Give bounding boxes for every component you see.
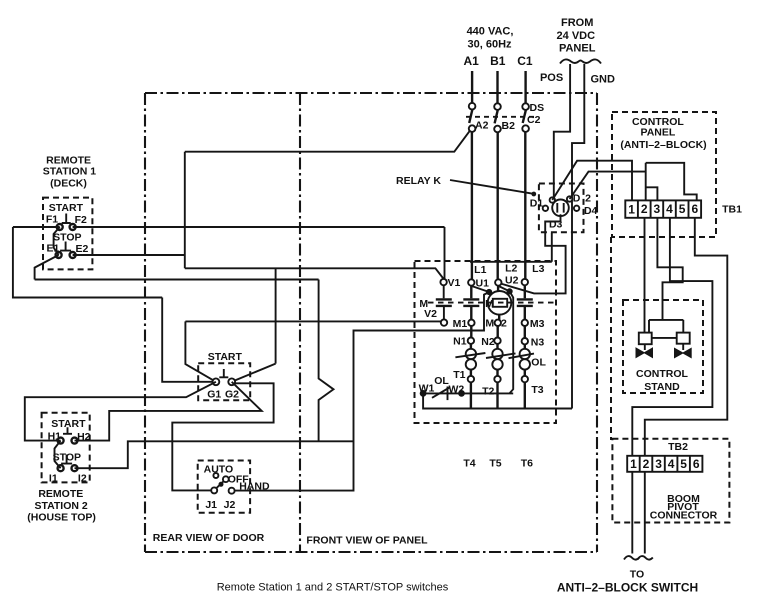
svg-text:G1: G1 (207, 388, 221, 400)
right valve stem (682, 344, 684, 350)
svg-text:FRONT VIEW OF PANEL: FRONT VIEW OF PANEL (306, 535, 428, 547)
svg-text:GND: GND (590, 74, 615, 86)
coil node dot left (487, 289, 492, 294)
svg-text:4: 4 (666, 202, 673, 216)
terminal M2 (495, 320, 501, 326)
boom pivot connector enclosure (dashed) (612, 439, 729, 523)
start button RS2 (NO) actuator (63, 427, 72, 434)
start button RS1 (NO) actuator (62, 214, 71, 224)
terminal N2 (494, 338, 500, 344)
svg-text:4: 4 (668, 457, 675, 471)
disconnect DS pole A lower contact A2 (469, 125, 476, 132)
node W1 (420, 391, 426, 397)
OL contact slash (432, 388, 450, 398)
relay terminal D2 (567, 196, 572, 201)
wire: coil right node riser to OL contact row (510, 292, 514, 394)
svg-text:STATION 2: STATION 2 (34, 500, 87, 512)
motor starter enclosure (dashed) (415, 261, 557, 423)
terminal V1 (440, 279, 446, 285)
OL slash phase A (455, 353, 485, 357)
wire: T2 down (496, 382, 498, 408)
wire: TB2-2 down to anti-2-block cable (644, 472, 646, 554)
wire: POS drop from 24VDC (554, 64, 570, 197)
svg-text:(HOUSE TOP): (HOUSE TOP) (27, 512, 96, 524)
label: 440 VAC, 3ph 60Hz (467, 26, 514, 51)
relay K enclosure (dashed) (539, 184, 584, 233)
OL slash phase C (509, 354, 535, 359)
svg-text:N1: N1 (453, 336, 467, 348)
svg-text:2: 2 (585, 193, 591, 205)
OL slash phase B (486, 353, 516, 358)
HOA selector arm (216, 481, 223, 488)
wire: M2-N2 (497, 326, 499, 338)
disconnect DS pole C lower contact C2 (522, 125, 529, 132)
wire: H1-I1 internal jumper (55, 441, 61, 469)
contact F2 (70, 224, 76, 230)
remote station 2 enclosure (dashed) (42, 413, 90, 483)
HOA selector enclosure (dashed) (198, 461, 250, 513)
svg-text:L2: L2 (505, 262, 517, 274)
svg-text:D1: D1 (530, 198, 544, 210)
svg-text:C2: C2 (527, 114, 541, 126)
svg-text:E2: E2 (75, 243, 88, 255)
terminal T1 (468, 376, 474, 382)
wire: relay D2 to TB1-2 (570, 172, 646, 199)
svg-text:START: START (49, 202, 84, 214)
svg-text:M: M (485, 318, 494, 330)
svg-text:TB2: TB2 (668, 441, 688, 453)
svg-text:TO: TO (630, 569, 644, 581)
svg-text:3: 3 (655, 457, 662, 471)
svg-text:CONTROL: CONTROL (636, 368, 688, 380)
wire: V1 stem to M aux contact (443, 285, 445, 298)
boundary: rear-view-of-door / front-view-of-panel divider (299, 93, 301, 552)
node W2 (459, 391, 465, 397)
contact F1 (57, 224, 63, 230)
start button G (NO) actuator (219, 369, 228, 377)
svg-text:440 VAC,: 440 VAC, (467, 26, 514, 38)
relay terminal left (D1 side) (543, 206, 548, 211)
label: REMOTE STATION 2 (HOUSE TOP) (27, 488, 96, 524)
contact E1 (56, 252, 62, 258)
relay terminal D4 (574, 206, 579, 211)
wire: F1-E1 internal jumper (54, 227, 60, 255)
terminal N1 (468, 338, 474, 344)
svg-text:FROM: FROM (561, 17, 593, 29)
svg-text:POS: POS (540, 72, 563, 84)
svg-text:M3: M3 (530, 318, 545, 330)
wire: TB1-6 down to TB2-2 (645, 218, 728, 456)
terminal V2 (441, 319, 447, 325)
OL heater phase A (466, 349, 476, 359)
terminal T3 (522, 376, 528, 382)
svg-text:M: M (485, 298, 494, 310)
wire: N3 stem (524, 344, 526, 349)
wire: F1 to seal node (left riser) (13, 227, 213, 382)
wire: V2 line (185, 320, 440, 322)
contactor M mechanical linkage (dashed) (428, 302, 554, 304)
contact H2 (72, 438, 78, 444)
relay K coil circle (552, 200, 569, 217)
wire: OL to T2 (496, 369, 498, 376)
wire: H1 to G1 via left riser (25, 382, 216, 441)
svg-text:L3: L3 (532, 263, 544, 275)
svg-text:24 VDC: 24 VDC (557, 30, 596, 42)
contact G1 (213, 378, 220, 385)
wire: TB2-1 down to anti-2-block cable (631, 472, 633, 554)
disconnect DS pole B blade (495, 110, 498, 124)
svg-text:2: 2 (643, 457, 650, 471)
wire: TB1-3 down to control stand right valve (649, 218, 683, 333)
control panel anti-2-block enclosure (dashed) (612, 112, 716, 237)
wire: coil bottom to M2 (498, 315, 500, 320)
label: FROM 24 VDC PANEL (557, 17, 596, 54)
wire: N1 stem (470, 344, 472, 349)
wire: L3 stem (524, 285, 526, 298)
M aux contact bars (V column) (436, 299, 452, 306)
wire: I2 to chevron line (75, 441, 354, 468)
svg-text:STATION 1: STATION 1 (43, 165, 96, 177)
svg-text:(DECK): (DECK) (50, 177, 87, 189)
svg-text:5: 5 (680, 457, 687, 471)
wire: TB1-2 feeder vertical (645, 163, 647, 201)
svg-text:M1: M1 (453, 318, 468, 330)
wire: M aux to V2 (443, 307, 445, 319)
OL contact tick (447, 387, 449, 401)
left valve stem (644, 344, 646, 350)
TB2 pin numbers 1-6 (630, 457, 700, 471)
svg-text:2: 2 (501, 318, 507, 330)
disconnect DS pole C blade (523, 110, 526, 123)
wire: E1 diagonal to stop chain (35, 255, 59, 280)
OL heater phase B (492, 349, 502, 359)
M main contact bars phase A (463, 299, 479, 306)
coil node dot right (507, 289, 512, 294)
svg-text:L1: L1 (474, 264, 486, 276)
contact G2 (228, 378, 235, 385)
svg-text:30, 60Hz: 30, 60Hz (467, 39, 512, 51)
svg-text:J1: J1 (205, 499, 217, 511)
wire: F1 line left (13, 226, 60, 228)
wire: A2 to U1 (471, 132, 473, 279)
relay K coil inner bars (557, 203, 563, 213)
svg-text:F1: F1 (46, 214, 58, 226)
wire: contact to M1 (470, 307, 472, 320)
cable-break squiggle TB2 wire 1 (624, 556, 639, 560)
svg-text:CONNECTOR: CONNECTOR (650, 509, 718, 521)
wire: stop chain riser with chevron (319, 280, 334, 442)
disconnect DS pole B upper contact (494, 103, 501, 110)
label: CONTROL PANEL (ANTI-2-BLOCK) (620, 116, 706, 151)
svg-text:6: 6 (691, 202, 698, 216)
cable-break squiggle under 24VDC panel (560, 59, 601, 63)
wire: U1 stem (470, 286, 472, 298)
wire: L2-L3 bar at starter box top (470, 233, 552, 262)
disconnect DS pole A blade (469, 109, 472, 123)
svg-text:REAR VIEW OF DOOR: REAR VIEW OF DOOR (153, 532, 265, 544)
svg-text:T4: T4 (463, 457, 475, 469)
wire: TB1-4 down to TB2-1 (632, 218, 712, 456)
wire: G2 lower diagonal (172, 383, 273, 490)
stop button RS1 (NC) actuator (60, 242, 71, 251)
wire: stop chain horizontal (35, 279, 319, 281)
wire: B2 to U2 (497, 132, 499, 279)
svg-text:T5: T5 (489, 457, 501, 469)
svg-text:PANEL: PANEL (640, 127, 675, 139)
svg-text:OL: OL (434, 375, 449, 387)
label: REMOTE STATION 1 (DECK) (43, 154, 96, 189)
wire: N2 stem (496, 344, 498, 349)
pointer line from RELAY K label to relay (450, 180, 534, 194)
svg-text:D4: D4 (584, 205, 598, 217)
wire: funnel left diagonal to G1 (185, 321, 216, 381)
wire: phase A1 drop (471, 71, 473, 103)
svg-text:1: 1 (630, 457, 637, 471)
wire: ground return along panel bottom to W1 (423, 393, 572, 408)
local start switch enclosure (dashed) (198, 363, 250, 400)
wire: F2 line right to A2 node (73, 227, 445, 279)
wire: C2 to L3 contact (524, 132, 526, 279)
wire: funnel right diagonal to G2 (232, 364, 276, 382)
control stand enclosure (dashed) (623, 300, 703, 393)
dashed cable run below control panel box (610, 237, 612, 440)
svg-text:B2: B2 (502, 120, 516, 132)
svg-text:A1: A1 (464, 54, 480, 68)
enclosure: front-view panel dash-dot box (145, 93, 597, 552)
terminal N3 (522, 338, 528, 344)
label: TO ANTI-2-BLOCK SWITCH (557, 569, 698, 595)
disconnect DS pole B lower contact B2 (494, 126, 501, 133)
wire: OL to T1 (470, 369, 472, 376)
svg-text:F2: F2 (75, 214, 87, 226)
M main contact bars phase C (517, 299, 533, 306)
contact E2 (70, 252, 76, 258)
remote station 1 enclosure (dashed) (43, 198, 92, 270)
svg-text:C1: C1 (517, 54, 533, 68)
wire: OL to T3 (524, 369, 526, 376)
wire: H2 to HOA J1 (75, 382, 262, 441)
svg-text:V2: V2 (424, 308, 437, 320)
wire: TB1-2 down to control stand left valve (644, 218, 646, 333)
terminal block TB2 (627, 456, 702, 472)
terminal block TB1 (625, 200, 701, 217)
HOA terminal OFF (223, 476, 229, 482)
svg-text:T2: T2 (482, 386, 494, 398)
terminal U2 (495, 279, 501, 285)
svg-text:N3: N3 (531, 337, 545, 349)
svg-text:G2: G2 (225, 388, 239, 400)
wire: J2/HAND to coil via riser (235, 292, 489, 491)
contact H1 (58, 438, 64, 444)
wire: U1 to coil left node (471, 286, 489, 292)
wire: A2 node vertical (184, 152, 186, 269)
svg-text:2: 2 (641, 202, 648, 216)
wire: M1-N1 (470, 326, 472, 338)
svg-text:A2: A2 (475, 120, 489, 132)
wire: A2 tap horizontal (185, 131, 470, 152)
svg-text:6: 6 (693, 457, 700, 471)
svg-text:ANTI–2–BLOCK SWITCH: ANTI–2–BLOCK SWITCH (557, 581, 698, 595)
wire: funnel top to G2 (185, 268, 444, 363)
svg-text:START: START (51, 418, 86, 430)
wire: relay D1 to TB1-1 (552, 161, 632, 201)
disconnect DS pole C upper contact (522, 103, 529, 110)
contactor M coil circle (488, 291, 512, 315)
OL heater phase C (520, 349, 530, 359)
HOA terminal J2 (229, 488, 235, 494)
wire: U2 to coil right node (498, 286, 509, 292)
svg-text:J2: J2 (224, 499, 236, 511)
left valve symbol (636, 348, 653, 358)
TB1 pin numbers 1-6 (628, 202, 698, 216)
wire: GND drop from 24VDC (572, 64, 584, 409)
wire: relay D3 chain down to U2 (501, 214, 566, 293)
contact I2 (72, 465, 78, 471)
label: BOOM PIVOT CONNECTOR (650, 493, 718, 522)
HOA selector arm dot (219, 482, 223, 486)
svg-text:OL: OL (531, 357, 546, 369)
svg-text:STAND: STAND (644, 381, 680, 393)
svg-text:(ANTI–2–BLOCK): (ANTI–2–BLOCK) (620, 139, 706, 151)
wire: M3-N3 (524, 326, 526, 338)
wire: E2 line right to V1 (73, 254, 185, 256)
relay terminal D1 (550, 197, 555, 202)
wire: phase B1 drop (496, 71, 498, 104)
terminal M1 (468, 320, 474, 326)
svg-text:START: START (208, 351, 243, 363)
svg-text:5: 5 (679, 202, 686, 216)
wire: U2 stem (497, 286, 499, 291)
svg-text:3: 3 (654, 202, 661, 216)
terminal T2 (494, 376, 500, 382)
disconnect DS pole A upper contact (469, 103, 476, 110)
wire: W1-W2 to T1 column (423, 392, 513, 394)
HOA terminal AUTO (213, 473, 218, 478)
control stand left solenoid (639, 333, 652, 345)
wire: contact to M3 (524, 307, 526, 320)
wire: TB1 jumper rectangle cells 3-6 (646, 163, 697, 201)
svg-text:B1: B1 (490, 54, 506, 68)
label: CONTROL STAND (636, 368, 688, 393)
terminal U1 (468, 279, 474, 285)
disconnect DS mechanical linkage (dashed) (466, 116, 536, 118)
svg-text:I2: I2 (78, 472, 87, 484)
svg-text:I1: I1 (49, 472, 58, 484)
svg-text:REMOTE: REMOTE (38, 488, 83, 500)
terminal M3 (522, 320, 528, 326)
svg-text:T3: T3 (531, 384, 543, 396)
svg-text:1: 1 (628, 203, 635, 217)
svg-text:DS: DS (530, 102, 545, 114)
contactor M coil inner bar (493, 299, 507, 307)
wire: T3 down (524, 382, 526, 408)
HOA terminal J1 (211, 487, 217, 493)
svg-text:N2: N2 (481, 336, 495, 348)
svg-text:T1: T1 (453, 369, 465, 381)
svg-text:RELAY K: RELAY K (396, 175, 441, 187)
svg-text:TB1: TB1 (722, 204, 742, 216)
wire: T1 down (470, 382, 472, 408)
control stand right solenoid (677, 333, 690, 344)
wire: phase C1 drop (524, 71, 526, 104)
contact I1 (58, 465, 64, 471)
svg-text:V1: V1 (448, 277, 461, 289)
svg-text:U2: U2 (505, 274, 519, 286)
stop button RS2 (NC) actuator (61, 455, 72, 464)
terminal L3 top (522, 279, 528, 285)
svg-text:T6: T6 (521, 457, 533, 469)
wire: solenoid tie bar (652, 337, 677, 339)
right valve symbol (675, 348, 692, 357)
cable-break squiggle TB2 wire 2 (638, 556, 653, 560)
svg-text:PANEL: PANEL (559, 43, 596, 55)
svg-text:Remote Station 1 and 2 START/S: Remote Station 1 and 2 START/STOP switch… (217, 582, 449, 594)
